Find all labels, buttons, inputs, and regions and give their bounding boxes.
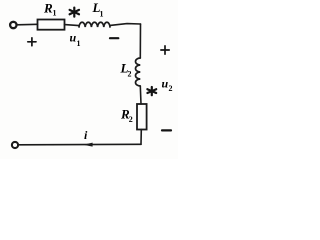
svg-text:u: u: [162, 77, 169, 91]
inductor L2: [136, 58, 141, 86]
wire top-left to R1: [17, 23, 37, 26]
plus right: [161, 46, 169, 54]
dot mark * for L1: [70, 8, 79, 17]
plus top-left: [28, 38, 36, 46]
terminal top-left: [10, 22, 16, 28]
svg-text:1: 1: [53, 9, 57, 18]
svg-text:2: 2: [129, 115, 133, 124]
inductor L1: [79, 22, 110, 27]
wire R2 to bottom corner: [140, 130, 142, 145]
current arrow i: [83, 143, 92, 147]
terminal bottom-left: [12, 142, 18, 148]
wire corner down to L2: [139, 24, 141, 58]
svg-text:1: 1: [100, 10, 104, 19]
svg-text:R: R: [43, 1, 53, 16]
wire L1 to corner: [110, 24, 141, 26]
minus right bottom: [162, 129, 171, 131]
wire L2 to R2: [139, 86, 142, 104]
resistor R1: [38, 20, 65, 30]
bottom wire: [19, 143, 141, 146]
minus under L1: [110, 37, 118, 39]
svg-text:2: 2: [169, 84, 173, 93]
svg-text:1: 1: [77, 39, 81, 48]
wire R1 to L1: [65, 25, 80, 26]
svg-text:u: u: [70, 31, 77, 45]
svg-text:2: 2: [128, 70, 132, 79]
resistor R2: [137, 104, 147, 130]
dot mark * for L2: [147, 87, 156, 95]
